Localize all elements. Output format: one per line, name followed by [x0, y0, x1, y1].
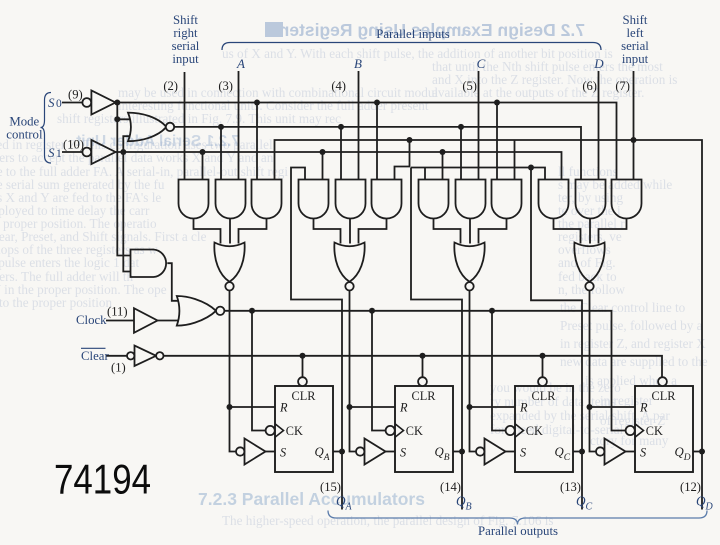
mode NOR output bubble [166, 123, 174, 131]
wire clear drop stage B [422, 356, 424, 378]
svg-text:S: S [640, 446, 646, 460]
buffer S0 triangle [91, 91, 115, 115]
wire clock AND output [167, 263, 178, 301]
junction S0 bus to inverter chain [114, 100, 120, 106]
wire parallel input D pin 6 [598, 71, 600, 180]
svg-text:(3): (3) [218, 79, 233, 93]
svg-text:S: S [280, 446, 286, 460]
AND gate stage C shift-left [492, 180, 522, 219]
wire AND2 output stage C [469, 219, 471, 244]
NOR gate stage D [574, 243, 604, 282]
AND gate stage C shift-right [419, 180, 449, 219]
inverter S path bubble stage D [596, 447, 604, 455]
wire QB feedback drop stage C [424, 168, 426, 180]
svg-text:CLR: CLR [532, 389, 557, 403]
mode control brace [41, 93, 52, 164]
wire S1 input [62, 151, 82, 153]
svg-text:Clear: Clear [81, 349, 109, 363]
junction clear stage C [540, 353, 546, 359]
wire S0 drop to clock AND [117, 119, 130, 255]
mirrored bleed-through heading 7.2.1 [76, 133, 240, 150]
AND gate stage D shift-right [539, 180, 569, 219]
wire parallel input C pin 5 [478, 71, 480, 180]
svg-text:CLR: CLR [292, 389, 317, 403]
flip-flop A CLR bubble [298, 377, 307, 386]
flip-flop A box [275, 386, 333, 472]
svg-text:input: input [172, 52, 199, 66]
junction QA output [339, 449, 345, 455]
flip-flop C CK bubble [506, 426, 515, 435]
svg-text:A: A [236, 56, 245, 71]
wire NOR output to R stage A [230, 291, 276, 408]
wire AND3 output stage B [359, 219, 387, 244]
wire clock drop stage B [372, 311, 386, 431]
label S0 [48, 95, 62, 110]
wire S1 drop to clock AND [123, 152, 130, 272]
svg-text:(13): (13) [560, 480, 581, 494]
junction S0 drop to NOR [114, 116, 120, 122]
svg-text:Shift: Shift [623, 13, 648, 27]
svg-text:C: C [477, 56, 486, 71]
wire clear drop stage C [542, 356, 544, 378]
junction S1 bus stage A [200, 149, 206, 155]
inverter S path triangle stage A [245, 439, 266, 465]
junction S1 bus stage B [320, 149, 326, 155]
wire NOR output to S inverter stage D [590, 407, 597, 452]
svg-text:R: R [279, 400, 288, 414]
clock inhibit AND gate [131, 250, 167, 278]
wire AND2 output stage A [229, 219, 231, 244]
svg-text:(1): (1) [111, 361, 126, 375]
inverter S path bubble stage A [236, 447, 244, 455]
wire parallel input A pin 3 [238, 71, 240, 180]
wire QC output [573, 451, 582, 453]
svg-text:D: D [593, 56, 604, 71]
flip-flop C CLR bubble [538, 377, 547, 386]
wire clock bus [224, 311, 625, 431]
wire QB output [453, 451, 462, 453]
flip-flop C box [515, 386, 573, 472]
AND gate stage D shift-left [612, 180, 642, 219]
svg-text:reset pulse enters the logic 1: reset pulse enters the logic 1 dat [0, 255, 140, 270]
inverter S path triangle stage C [485, 439, 506, 465]
svg-text:0: 0 [56, 98, 62, 110]
wire clock buffer to NOR [158, 320, 179, 322]
junction clock stage C [489, 308, 495, 314]
wire QC output stub [581, 452, 583, 510]
junction S0 bus stage B [374, 100, 380, 106]
junction clock stage B [369, 308, 375, 314]
wire QA output [333, 451, 342, 453]
wire S0 input [62, 102, 82, 104]
parallel inputs bracket [222, 43, 601, 51]
svg-text:B: B [354, 56, 362, 71]
junction shift-left bus stage B branch [407, 137, 413, 143]
label Mode control [6, 115, 43, 142]
svg-text:(5): (5) [462, 79, 477, 93]
svg-text:right: right [173, 26, 198, 40]
wire S0 bus drop stage C [496, 103, 498, 180]
svg-text:CK: CK [646, 424, 663, 438]
wire NOR output to R stage C [470, 291, 516, 408]
junction S1 bus stage C [440, 149, 446, 155]
wire mode NOR output bus [174, 127, 581, 180]
wire clock input [106, 320, 134, 322]
wire AND2 output stage D [589, 219, 591, 244]
wire S1 riser to mode NOR [123, 136, 130, 152]
AND gate stage B hold/load [336, 180, 366, 219]
svg-text:(6): (6) [582, 79, 597, 93]
junction QC feedback [528, 165, 534, 171]
wire NOR bus drop stage B [340, 127, 342, 180]
svg-text:R: R [519, 400, 528, 414]
wire inverter to S input stage D [626, 451, 636, 453]
wire NOR output to S inverter stage A [230, 407, 237, 452]
junction clock stage A [249, 308, 255, 314]
wire inverter to S input stage A [266, 451, 276, 453]
svg-text:(7): (7) [615, 79, 630, 93]
AND gate stage A shift-right [179, 180, 209, 219]
buffer clear output bubble [156, 352, 163, 359]
svg-text:7.2.1 Serial Adder Unit: 7.2.1 Serial Adder Unit [76, 133, 240, 150]
buffer S0 input bubble [82, 98, 91, 107]
flip-flop B CLR bubble [418, 377, 427, 386]
wire NOR bus drop stage A [220, 127, 222, 180]
svg-text:R: R [639, 400, 648, 414]
svg-text:7.2.3 Parallel Accumulators: 7.2.3 Parallel Accumulators [198, 489, 425, 509]
svg-text:and of Fig.: and of Fig. [558, 255, 616, 270]
inverter S path triangle stage D [605, 439, 626, 465]
svg-text:CK: CK [406, 424, 423, 438]
svg-text:ips into the proper position: ips into the proper position [0, 295, 113, 310]
svg-text:1: 1 [56, 148, 62, 160]
wire AND1 output stage A [194, 219, 221, 244]
flip-flop A CK bubble [266, 426, 275, 435]
svg-text:serial: serial [621, 39, 649, 53]
mode NOR gate U1 [128, 113, 166, 142]
wire shift-left serial input pin 7 [633, 71, 635, 180]
inverter S path triangle stage B [365, 439, 386, 465]
junction NOR bus stage B [338, 124, 344, 130]
svg-text:(10): (10) [63, 138, 84, 152]
wire S1 bus drop stage B [322, 152, 324, 180]
svg-text:(15): (15) [320, 480, 341, 494]
flip-flop B CK bubble [386, 426, 395, 435]
wire S1 bus drop stage A [202, 152, 204, 180]
svg-text:Parallel inputs: Parallel inputs [376, 27, 450, 41]
junction R node stage A [227, 404, 233, 410]
flip-flop B CK wedge [395, 424, 404, 437]
wire shift-right serial input pin 2 [184, 72, 186, 180]
wire AND3 output stage D [599, 219, 627, 244]
flip-flop D box [635, 386, 693, 472]
AND gate stage A hold/load [216, 180, 246, 219]
buffer clock triangle [134, 308, 158, 333]
inverter S path bubble stage C [476, 447, 484, 455]
flip-flop D CK bubble [626, 426, 635, 435]
wire QA output stub [341, 452, 343, 510]
wire QB feedback riser [411, 168, 462, 452]
svg-text:(12): (12) [680, 480, 701, 494]
junction QB output [459, 449, 465, 455]
wire AND1 output stage B [314, 219, 341, 244]
inverter S path bubble stage B [356, 447, 364, 455]
wire S0 bus drop stage A [256, 103, 258, 180]
AND gate stage B shift-left [372, 180, 402, 219]
junction S0 bus stage A [254, 100, 260, 106]
parallel outputs brace [328, 511, 707, 525]
svg-text:(9): (9) [68, 88, 83, 102]
svg-text:CK: CK [526, 424, 543, 438]
wire parallel input B pin 4 [358, 71, 360, 180]
wire NOR output to R stage B [350, 291, 396, 408]
label S1 [48, 145, 62, 160]
svg-text:CLR: CLR [652, 389, 677, 403]
svg-text:(11): (11) [107, 305, 128, 319]
wire QC feedback riser [531, 168, 582, 452]
wire clear input [107, 355, 128, 357]
wire QB-QC feedback rail [411, 168, 545, 180]
wire AND2 output stage B [349, 219, 351, 244]
flip-flop D labels [639, 389, 691, 463]
svg-text:S: S [520, 446, 526, 460]
wire clear bus [164, 356, 663, 378]
junction R node stage C [467, 404, 473, 410]
wire S0 bus [116, 103, 617, 180]
junction NOR bus stage A [218, 124, 224, 130]
flip-flop A CK wedge [275, 424, 284, 437]
wire AND1 output stage D [554, 219, 581, 244]
svg-text:CLR: CLR [412, 389, 437, 403]
junction R node stage B [347, 404, 353, 410]
junction clear stage B [420, 353, 426, 359]
svg-text:serial: serial [172, 39, 200, 53]
svg-text:S: S [48, 145, 55, 160]
wire AND3 output stage A [239, 219, 267, 244]
wire inverter to S input stage C [506, 451, 516, 453]
wire clock drop stage A [252, 311, 266, 431]
junction clear stage A [300, 353, 306, 359]
NOR gate stage A [214, 243, 244, 282]
svg-text:left: left [626, 26, 643, 40]
svg-text:you would be in the zero: you would be in the zero [490, 380, 621, 395]
svg-text:S: S [48, 95, 55, 110]
wire clock drop stage C [492, 311, 506, 431]
AND gate stage B shift-right [299, 180, 329, 219]
AND gate stage C hold/load [456, 180, 486, 219]
svg-text:Mode: Mode [9, 115, 39, 129]
flip-flop C labels [519, 389, 571, 463]
wire QD output stub [701, 452, 703, 510]
wire S0 drop to mode NOR [117, 103, 129, 120]
wire shift-left branch to stage B [395, 140, 410, 180]
svg-text:the Clear control line to: the Clear control line to [560, 300, 686, 315]
wire AND1 output stage C [434, 219, 461, 244]
wire QB output stub [461, 452, 463, 510]
buffer clear triangle [135, 346, 157, 366]
junction S1 bus to NOR tap [120, 149, 126, 155]
svg-text:Shift: Shift [173, 13, 198, 27]
wire clear drop stage A [302, 356, 304, 378]
clock NOR gate [177, 296, 216, 326]
junction QD output [699, 449, 705, 455]
buffer S1 input bubble [82, 148, 91, 157]
wire QA feedback to stage B [291, 168, 342, 452]
flip-flop B labels [399, 389, 450, 463]
junction NOR bus stage C [458, 124, 464, 130]
svg-text:Clock: Clock [76, 313, 107, 327]
svg-text:(4): (4) [331, 79, 346, 93]
junction S0 bus stage C [494, 100, 500, 106]
faint heading 7.2.3 Parallel Accumulators [198, 489, 425, 509]
wire S1 bus drop stage C [442, 152, 444, 180]
buffer clear input bubble [127, 352, 134, 359]
wire NOR bus drop stage C [460, 127, 462, 180]
clock NOR output bubble [216, 307, 224, 315]
label Clear with overline [81, 348, 109, 363]
svg-text:R: R [399, 400, 408, 414]
flip-flop D CK wedge [635, 424, 644, 437]
svg-text:shift registers illustrated in: shift registers illustrated in Fig. 7.9.… [57, 111, 341, 126]
wire NOR output to S inverter stage C [470, 407, 477, 452]
wire S0 bus drop stage B [376, 103, 378, 180]
svg-text:(14): (14) [440, 480, 461, 494]
flip-flop A labels [279, 389, 330, 463]
svg-text:(2): (2) [163, 79, 178, 93]
flip-flop B box [395, 386, 453, 472]
svg-text:S: S [400, 446, 406, 460]
wire NOR output to R stage D [590, 291, 636, 408]
wire AND3 output stage C [479, 219, 507, 244]
mirrored bleed-through heading 7.2 [265, 20, 585, 40]
wire NOR output to S inverter stage B [350, 407, 357, 452]
wire S1 bus [116, 152, 562, 180]
svg-text:Parallel outputs: Parallel outputs [478, 524, 558, 538]
junction R node stage D [587, 404, 593, 410]
wire inverter to S input stage B [386, 451, 396, 453]
flip-flop C CK wedge [515, 424, 524, 437]
svg-text:input: input [622, 52, 649, 66]
junction QC output [579, 449, 585, 455]
label shift left serial input [621, 13, 649, 66]
label shift right serial input [172, 13, 200, 66]
flip-flop D CLR bubble [658, 377, 667, 386]
svg-text:CK: CK [286, 424, 303, 438]
buffer S1 triangle [91, 140, 115, 164]
wire QD output [693, 451, 702, 453]
wire shift-left feedback bus [275, 140, 703, 452]
junction shift-left bus serial input [631, 137, 637, 143]
NOR gate stage B [334, 243, 364, 282]
wire shift-left bus drop stage C [514, 140, 516, 180]
svg-text:control: control [6, 128, 43, 142]
NOR gate stage C [454, 243, 484, 282]
AND gate stage A shift-left [252, 180, 282, 219]
svg-text:74194: 74194 [54, 456, 151, 503]
AND gate stage D hold/load [576, 180, 606, 219]
